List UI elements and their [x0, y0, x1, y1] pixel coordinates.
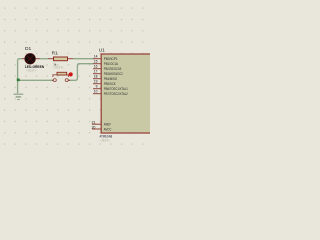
svg-text:PB6/TOSC1/XTAL1: PB6/TOSC1/XTAL1	[104, 87, 128, 91]
svg-text:15: 15	[94, 59, 98, 63]
svg-text:9: 9	[96, 84, 98, 88]
wire: junction to button left	[18, 79, 54, 81]
svg-text:17: 17	[94, 69, 98, 73]
svg-text:U1: U1	[99, 47, 105, 53]
resistor R1	[48, 57, 73, 61]
svg-text:PB7/TOSC2/XTAL2: PB7/TOSC2/XTAL2	[104, 92, 128, 96]
wire: button right to U1 pin 15	[68, 64, 93, 81]
svg-text:PB5/SCK: PB5/SCK	[104, 82, 116, 86]
svg-text:18: 18	[94, 74, 98, 78]
pin 19 PB5/SCK	[93, 79, 116, 86]
ground	[14, 94, 24, 99]
pin 20 AVCC	[92, 125, 112, 131]
pin 17 PB3/MOSI/OC2	[93, 69, 123, 76]
op-amp U1 (ATMEGA8 MCU) body	[101, 54, 154, 133]
svg-text:R1: R1	[52, 50, 58, 56]
svg-text:PB3/MOSI/OC2: PB3/MOSI/OC2	[104, 72, 123, 76]
pin 9 PB6/TOSC1/XTAL1	[93, 84, 128, 91]
svg-text:19: 19	[94, 79, 98, 83]
node junction	[17, 79, 20, 82]
svg-text:<TEXT>: <TEXT>	[26, 69, 37, 73]
svg-text:10: 10	[94, 89, 98, 93]
svg-text:PB0/ICP1: PB0/ICP1	[104, 57, 118, 61]
wire: LED left lead to bend	[18, 59, 22, 94]
svg-text:20: 20	[92, 125, 96, 129]
svg-text:16: 16	[94, 64, 98, 68]
svg-text:PB1/OC1A: PB1/OC1A	[104, 62, 119, 66]
wire: LED to R1	[40, 58, 48, 60]
svg-text:PB2/SS/OC1B: PB2/SS/OC1B	[104, 67, 122, 71]
pin 14 PB0/ICP1	[93, 54, 118, 61]
pin 21 AREF	[92, 121, 112, 127]
pin 10 PB7/TOSC2/XTAL2	[93, 89, 128, 96]
svg-text:<TEXT>: <TEXT>	[100, 138, 111, 142]
diode D1 LED-GREEN	[22, 54, 40, 65]
button actuator red dot	[69, 72, 73, 76]
svg-text:14: 14	[94, 54, 98, 58]
svg-text:AVCC: AVCC	[104, 127, 112, 131]
svg-text:D1: D1	[25, 46, 31, 52]
button (push switch)	[52, 72, 70, 81]
svg-text:<TEXT>: <TEXT>	[53, 66, 64, 70]
svg-text:AREF: AREF	[104, 123, 112, 127]
pin 16 PB2/SS/OC1B	[93, 64, 122, 71]
svg-text:PB4/MISO: PB4/MISO	[104, 77, 117, 81]
pin 15 PB1/OC1A	[93, 59, 118, 66]
svg-text:21: 21	[92, 121, 96, 125]
pin 18 PB4/MISO	[93, 74, 117, 81]
wire: R1 to U1 pin 14	[73, 58, 94, 60]
